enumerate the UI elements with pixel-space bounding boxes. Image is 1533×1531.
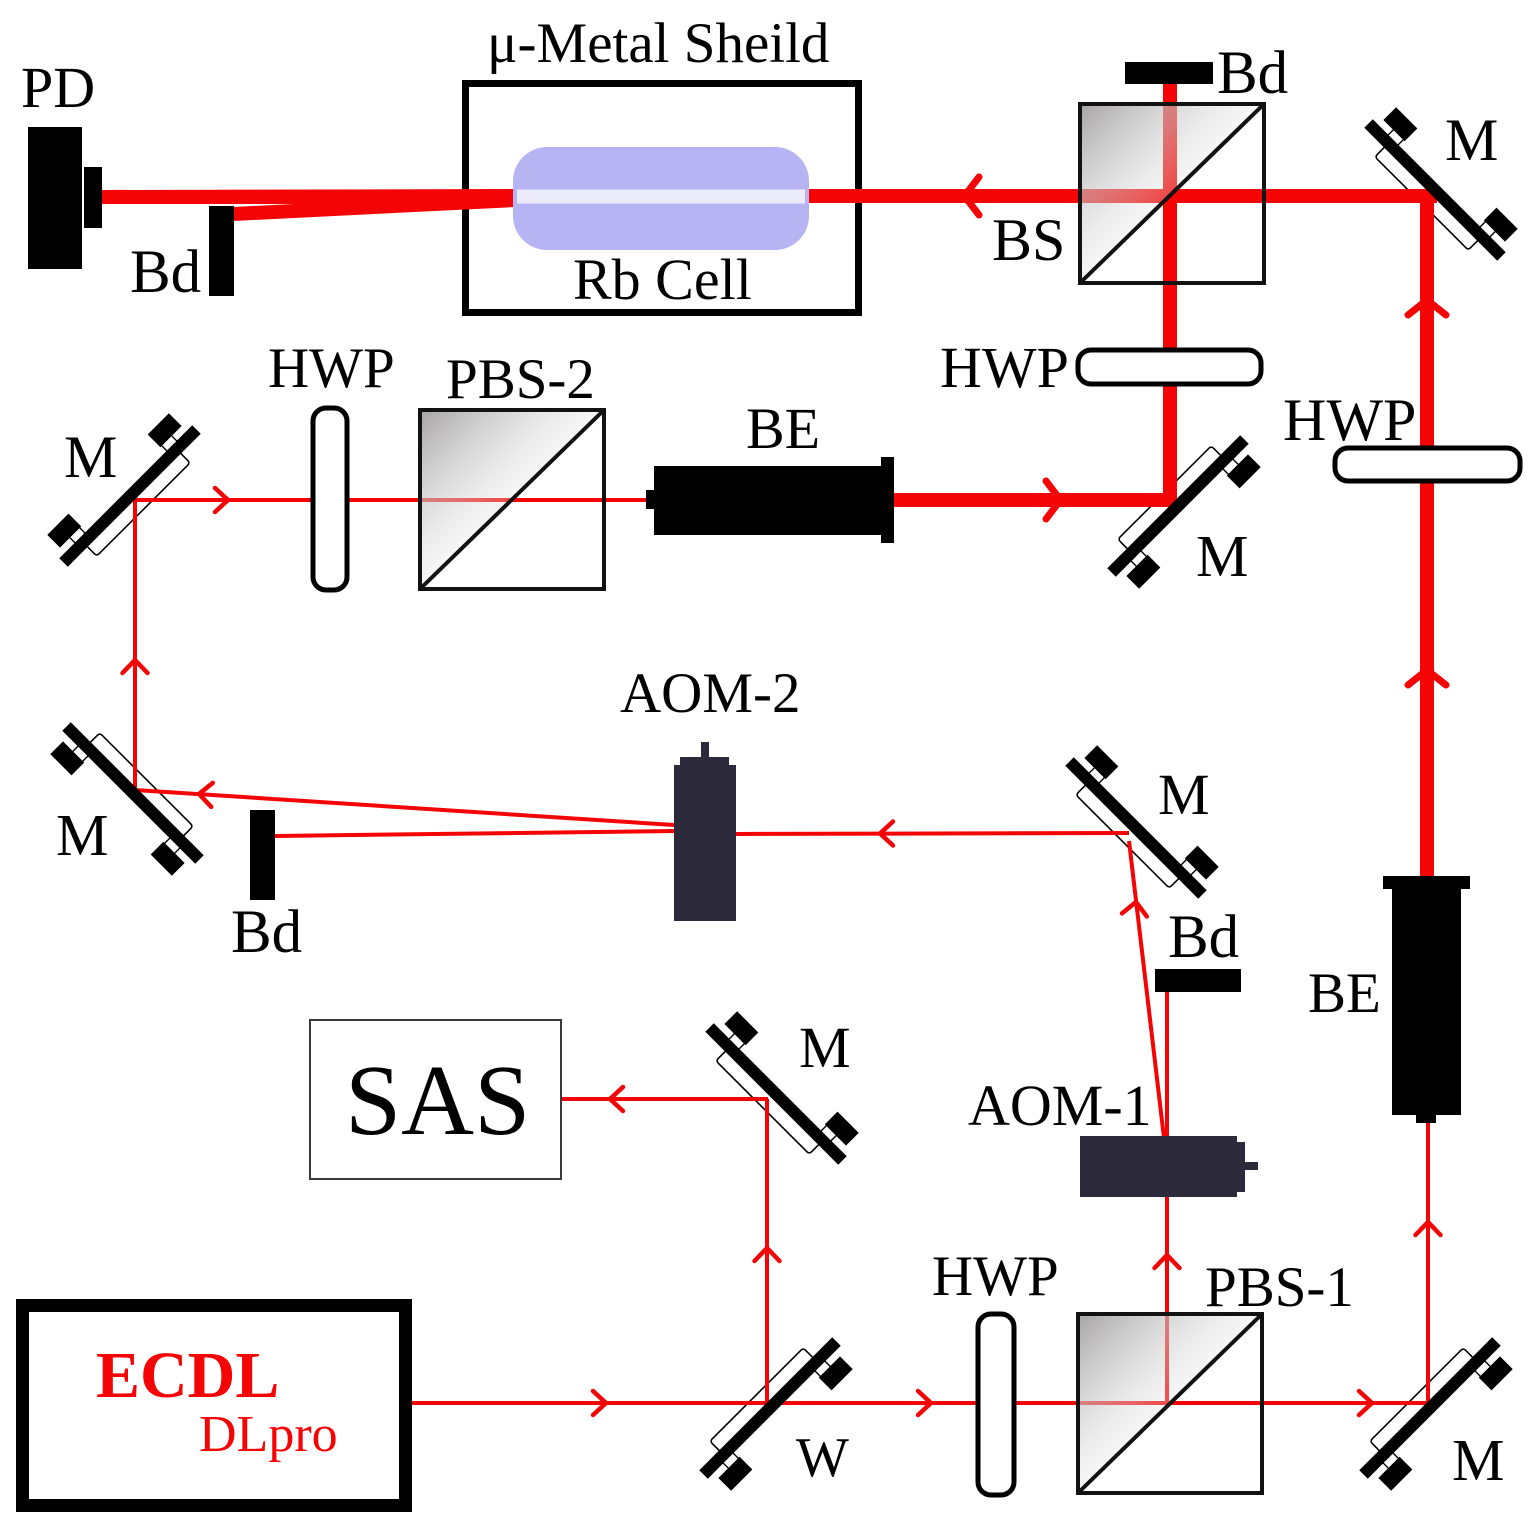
arrow up on right vertical beam (upper): [1408, 300, 1446, 315]
svg-text:BS: BS: [992, 207, 1065, 273]
svg-text:μ-Metal Sheild: μ-Metal Sheild: [487, 12, 829, 75]
beam dump Bd2 (above BS): [1125, 62, 1213, 84]
svg-text:HWP: HWP: [1283, 387, 1416, 453]
HWP top (below BS): [1078, 350, 1261, 384]
thin beam AOM-1 to mirror M5: [1129, 841, 1164, 1138]
arrow left on AOM-2 M4 beam: [198, 782, 213, 807]
svg-text:AOM-2: AOM-2: [620, 662, 801, 725]
thin beam AOM-2 to Bd: [275, 831, 674, 836]
svg-text:DLpro: DLpro: [199, 1406, 338, 1463]
arrow left on SAS beam: [610, 1087, 623, 1111]
window W back: [696, 1334, 853, 1491]
AOM-2: [674, 742, 736, 921]
thin beam M7 up to BE-v: [1426, 1123, 1430, 1403]
thin beam ECDL to mirror M7: [412, 1401, 1428, 1405]
svg-text:M: M: [1158, 762, 1210, 827]
thin beam M2 to BE-h: [135, 498, 655, 502]
mirror M7 back (bottom right): [1356, 1334, 1513, 1491]
PBS-2 cube: [420, 410, 604, 589]
mirror M2 back (row2 left): [47, 413, 204, 570]
arrow right on ECDL beam (right): [1359, 1391, 1372, 1415]
svg-text:HWP: HWP: [268, 337, 395, 400]
thick beam right vertical M1 to BE: [1420, 196, 1434, 876]
svg-text:HWP: HWP: [932, 1245, 1059, 1308]
HWP bottom: [978, 1314, 1014, 1495]
mirror M6 bar (near SAS): [705, 1023, 846, 1164]
mirror M3 bar (row2 right near BE): [1107, 435, 1248, 576]
svg-text:Bd: Bd: [231, 899, 302, 966]
svg-text:M: M: [1196, 523, 1248, 589]
thin beam M5 to AOM-2: [736, 833, 1129, 834]
svg-text:SAS: SAS: [345, 1044, 530, 1156]
thick beam cell to mirror M1: [800, 189, 1437, 203]
thin beam M4 up to M2: [133, 498, 137, 792]
thin beam AOM-2 to mirror M4: [135, 790, 674, 825]
arrow left on M5 AOM-2 beam: [880, 822, 893, 846]
arrow up on AOM-1 M5 beam: [1122, 900, 1148, 916]
arrow up on PBS-1 AOM-1 beam: [1155, 1255, 1180, 1268]
mirror M5 back (above AOM-1): [1062, 745, 1219, 902]
arrow right on BE-h beam: [1046, 481, 1061, 519]
window W bar: [699, 1337, 840, 1478]
arrow up on W M6 beam: [755, 1248, 780, 1261]
svg-text:PD: PD: [21, 55, 95, 120]
svg-text:M: M: [56, 802, 108, 868]
svg-text:M: M: [799, 1015, 851, 1080]
arrow left on cell beam: [965, 177, 980, 215]
HWP row2: [313, 408, 347, 590]
SAS box: [310, 1020, 561, 1179]
svg-text:PBS-2: PBS-2: [446, 348, 595, 411]
mirror M1 bar (top right): [1364, 119, 1505, 260]
svg-text:AOM-1: AOM-1: [968, 1073, 1152, 1138]
thin beam W up to M6: [765, 1099, 769, 1403]
arrow up on M7-BE beam: [1416, 1222, 1441, 1235]
mirror M4 back (mid left): [50, 719, 207, 876]
beam expander BE horizontal: [646, 457, 894, 543]
PBS-1 cube: [1078, 1314, 1262, 1493]
svg-text:HWP: HWP: [940, 335, 1069, 400]
svg-text:M: M: [64, 424, 117, 490]
arrow up on right vertical beam (lower): [1408, 670, 1446, 685]
beam expander BE vertical: [1383, 876, 1470, 1123]
svg-text:W: W: [796, 1427, 849, 1489]
HWP right: [1335, 448, 1520, 481]
mirror M2 bar (row2 left): [59, 425, 200, 566]
thick beam BS vertical: [1163, 70, 1177, 507]
svg-text:PBS-1: PBS-1: [1205, 1256, 1354, 1319]
Rb cell bore stripe: [517, 190, 805, 204]
mirror M3 back (row2 right near BE): [1104, 432, 1261, 589]
svg-text:BE: BE: [1308, 962, 1381, 1025]
thick beam Bd to cell (lower): [233, 193, 516, 221]
mu-metal shield box: [466, 84, 859, 313]
BS cube: [1080, 104, 1264, 283]
svg-text:Bd: Bd: [1168, 904, 1239, 971]
photodiode PD: [28, 127, 102, 269]
thin beam AOM-1 up to Bd: [1165, 992, 1169, 1136]
ECDL box: [23, 1306, 406, 1506]
thick beam BE-h to mirror: [894, 493, 1177, 507]
thin beam PBS-1 up to AOM-1: [1165, 1197, 1169, 1403]
arrow up on M4 M2 beam: [123, 660, 148, 673]
AOM-1: [1080, 1136, 1258, 1197]
arrow right on ECDL beam (far left): [593, 1391, 606, 1415]
thin beam mirror M6 to SAS: [561, 1097, 768, 1101]
svg-text:Bd: Bd: [130, 239, 201, 306]
thick beam PD to cell (upper): [102, 189, 516, 204]
svg-text:M: M: [1445, 107, 1498, 173]
Rb cell capsule: [513, 147, 809, 250]
mirror M6 back (near SAS): [702, 1011, 859, 1168]
mirror M7 bar (bottom right): [1359, 1337, 1500, 1478]
svg-text:Bd: Bd: [1217, 40, 1288, 107]
beam dump Bd1 (near PD): [209, 206, 234, 296]
beam dump Bd3 (left of AOM-2): [250, 810, 275, 900]
svg-text:ECDL: ECDL: [96, 1339, 279, 1412]
svg-text:M: M: [1452, 1427, 1504, 1493]
svg-text:Rb Cell: Rb Cell: [573, 247, 752, 312]
arrow right on ECDL beam (left): [918, 1391, 931, 1415]
mirror M1 back (top right): [1361, 107, 1518, 264]
mirror M4 bar (mid left): [62, 722, 203, 863]
mirror M5 bar (above AOM-1): [1065, 757, 1206, 898]
svg-text:BE: BE: [746, 396, 820, 461]
arrow right on M2 BE beam: [215, 488, 228, 512]
beam dump Bd4 (above AOM-1): [1155, 969, 1241, 992]
